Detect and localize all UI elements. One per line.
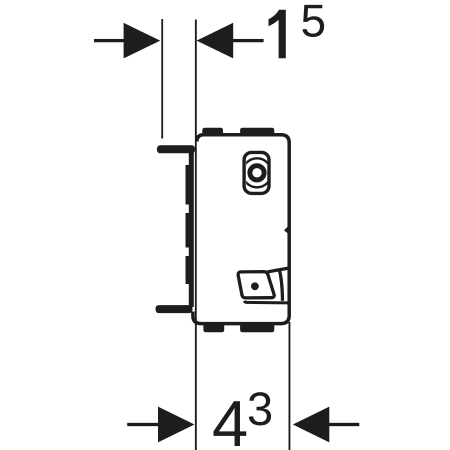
outlet flap: [238, 272, 274, 298]
dimension label 43 : superscript 3: [249, 392, 271, 425]
dimension label 43 : digit 4: [213, 401, 246, 446]
wall finished-surface line left: [161, 19, 163, 139]
device body fill: [197, 135, 289, 324]
bottom dimension arrow right (points left): [293, 407, 360, 443]
serrated adapter strip: [186, 152, 193, 307]
top mounting lug: [157, 145, 195, 153]
outlet wedge curve: [280, 270, 283, 301]
bottom-left corner bulge of body: [193, 312, 202, 324]
top housing tab 2: [240, 128, 274, 136]
dimension label 15 : digit 1 drawn as path: [269, 10, 286, 59]
bottom housing tab 1: [203, 322, 224, 332]
flush button halo arcs: [243, 158, 272, 187]
flush button center ring: [250, 166, 264, 180]
dimension label 15 : superscript 5: [302, 5, 324, 37]
bottom mounting lug: [156, 305, 193, 313]
outlet top line: [268, 268, 289, 272]
top dimension arrow right (points left): [197, 23, 264, 59]
bottom housing tab 2: [240, 322, 274, 332]
flush button housing: [244, 152, 269, 193]
wall finished-surface line right / left extension line of dimension 43: [195, 20, 197, 450]
right extension line of dimension 43: [289, 322, 291, 450]
top housing tab 1: [202, 128, 223, 136]
snap notch on right edge: [284, 225, 289, 234]
device body outline: top, right, bottom edges (thick): [197, 135, 289, 324]
outlet shelf line: [245, 301, 289, 303]
outlet flap pivot dot: [251, 282, 259, 290]
top dimension arrow left (points right): [94, 23, 160, 59]
bottom dimension arrow left (points right): [127, 407, 194, 443]
